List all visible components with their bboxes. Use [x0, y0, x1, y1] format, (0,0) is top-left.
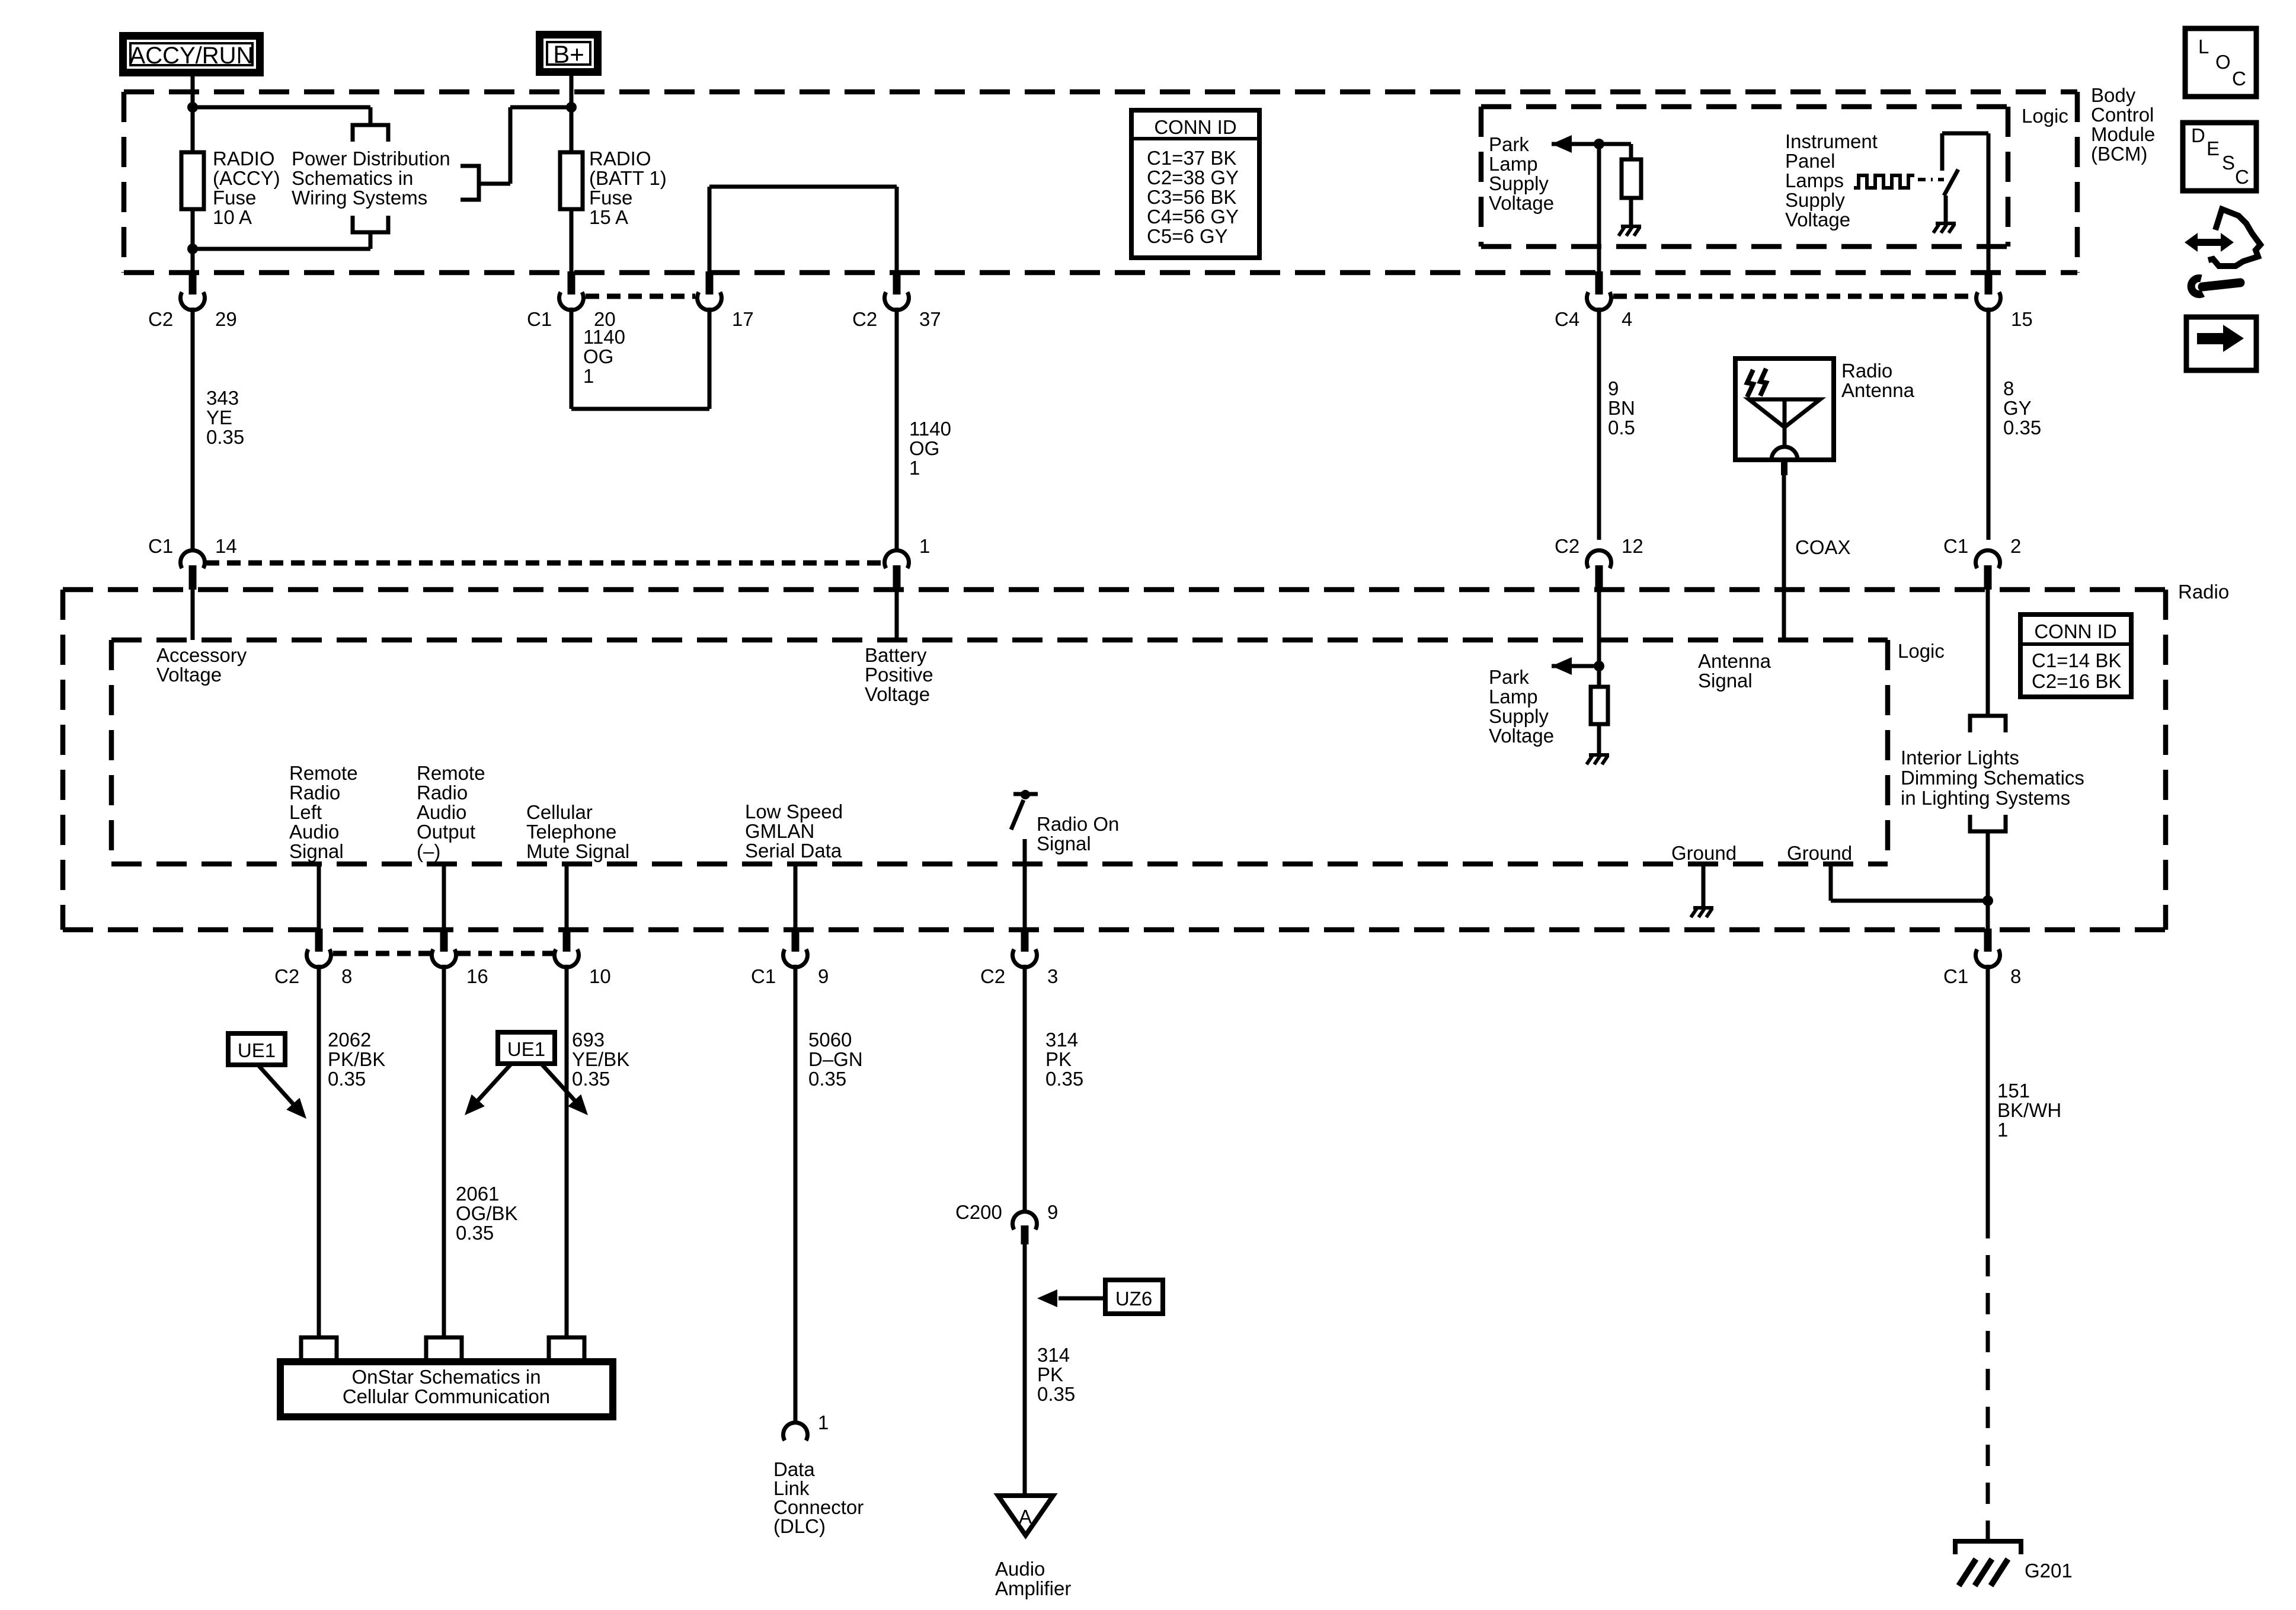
- svg-text:PK: PK: [1045, 1048, 1072, 1070]
- svg-text:C4=56 GY: C4=56 GY: [1147, 206, 1239, 228]
- wire 2061 OG/BK 0.35: [442, 965, 446, 1337]
- icon two-way arrow: [2185, 233, 2234, 252]
- dash-dot link to dimmer switch: [1918, 178, 1944, 181]
- radio CONN ID table: [2020, 614, 2131, 697]
- svg-text:Lamp: Lamp: [1489, 153, 1538, 175]
- wire 151 BK/WH dashed part: [1986, 1217, 1990, 1541]
- svg-text:Low Speed: Low Speed: [745, 801, 843, 822]
- antenna mast: [1783, 399, 1787, 447]
- svg-text:C3=56 BK: C3=56 BK: [1147, 186, 1236, 208]
- svg-text:Signal: Signal: [289, 840, 344, 862]
- svg-text:17: 17: [732, 308, 754, 330]
- wire 314 PK 0.35 upper: [1023, 965, 1027, 1212]
- svg-text:Voltage: Voltage: [1489, 192, 1554, 214]
- pin 8 connector arc: [307, 949, 331, 967]
- radio on switch blade: [1011, 800, 1024, 830]
- pin 10 connector arc: [555, 949, 579, 967]
- pin 3 stub: [1021, 929, 1029, 952]
- off-page bracket right (Power Distribution): [461, 166, 479, 200]
- svg-text:14: 14: [215, 535, 237, 557]
- svg-text:Fuse: Fuse: [589, 187, 632, 209]
- svg-text:0.35: 0.35: [1045, 1068, 1083, 1090]
- svg-text:C4: C4: [1555, 308, 1579, 330]
- wire pin 10 inside radio: [565, 864, 569, 930]
- svg-text:Voltage: Voltage: [1785, 209, 1850, 231]
- pin 12 stub: [1595, 565, 1603, 590]
- svg-text:C2: C2: [980, 965, 1005, 987]
- svg-text:Battery: Battery: [865, 644, 927, 666]
- svg-text:1: 1: [818, 1411, 829, 1433]
- svg-text:Signal: Signal: [1698, 670, 1753, 692]
- svg-text:693: 693: [572, 1029, 605, 1051]
- dotted connector line C2 pins 16-10: [457, 951, 554, 956]
- ground chassis dimmer switch: [1936, 222, 1956, 225]
- fuse RADIO (BATT 1) 15 A: [560, 152, 583, 209]
- svg-text:10 A: 10 A: [213, 206, 252, 228]
- svg-text:C1: C1: [148, 535, 173, 557]
- resistor park lamp BCM: [1622, 159, 1641, 198]
- wire 2062 PK/BK 0.35: [317, 965, 321, 1337]
- svg-text:C: C: [2235, 166, 2249, 188]
- svg-text:Mute Signal: Mute Signal: [526, 840, 629, 862]
- svg-text:OG: OG: [583, 345, 613, 367]
- svg-text:Instrument: Instrument: [1785, 130, 1878, 152]
- svg-text:9: 9: [1608, 377, 1619, 399]
- pin 14 connector arc: [181, 550, 205, 568]
- svg-text:RADIO: RADIO: [589, 148, 651, 169]
- pin 15 connector arc: [1977, 292, 2001, 310]
- wire pin C1-9 inside radio: [794, 864, 798, 930]
- svg-text:Accessory: Accessory: [156, 644, 247, 666]
- power feed tag B+: [540, 35, 598, 72]
- svg-text:CONN ID: CONN ID: [1154, 116, 1236, 138]
- svg-text:Logic: Logic: [1898, 640, 1945, 662]
- svg-text:D: D: [2191, 124, 2205, 146]
- svg-text:1140: 1140: [583, 326, 625, 348]
- antenna wave bolt 1: [1747, 370, 1753, 397]
- Body Control Module (BCM) dashed box: [124, 89, 2077, 95]
- svg-text:15 A: 15 A: [589, 206, 628, 228]
- BCM CONN ID table: [1131, 110, 1259, 258]
- svg-text:GY: GY: [2003, 397, 2032, 419]
- icon DESC box: [2183, 123, 2256, 191]
- dimmer switch lower contact wire: [1944, 196, 1948, 222]
- svg-text:Telephone: Telephone: [526, 821, 616, 843]
- resistor park lamp radio: [1591, 687, 1608, 724]
- svg-text:8: 8: [2010, 965, 2021, 987]
- svg-text:Antenna: Antenna: [1698, 650, 1771, 672]
- pin 20 connector arc: [559, 292, 584, 310]
- svg-text:Lamp: Lamp: [1489, 686, 1538, 708]
- svg-text:Dimming Schematics: Dimming Schematics: [1901, 767, 2084, 789]
- svg-text:151: 151: [1997, 1080, 2030, 1102]
- junction dot park lamp radio: [1594, 661, 1604, 671]
- svg-text:E: E: [2207, 137, 2220, 159]
- ground stub left: [1702, 864, 1706, 908]
- wire pin 16 inside radio: [442, 864, 446, 930]
- svg-text:RADIO: RADIO: [213, 148, 275, 169]
- junction dot B+: [566, 102, 577, 113]
- svg-text:0.35: 0.35: [456, 1222, 494, 1244]
- svg-text:37: 37: [919, 308, 941, 330]
- UE1 left arrow: [259, 1066, 296, 1108]
- svg-text:C1: C1: [527, 308, 552, 330]
- svg-text:UZ6: UZ6: [1115, 1288, 1152, 1310]
- wire radio on signal to pin C2-3: [1023, 839, 1027, 930]
- svg-text:0.35: 0.35: [328, 1068, 366, 1090]
- pin 20 stub: [568, 271, 575, 295]
- pin 10 stub: [563, 929, 571, 952]
- OnStar box: [280, 1362, 613, 1417]
- svg-text:C2: C2: [274, 965, 299, 987]
- wire 1140 OG 1 loop from pin 20: [570, 308, 574, 409]
- svg-text:CONN ID: CONN ID: [2034, 620, 2116, 642]
- icon bent arrow outline: [2208, 209, 2260, 266]
- off-page bracket bottom (Power Distribution): [353, 216, 388, 232]
- svg-text:2: 2: [2010, 535, 2021, 557]
- svg-text:S: S: [2222, 152, 2235, 174]
- pin 9 connector arc: [784, 949, 808, 967]
- dotted connector line C4 pins 4-15: [1613, 294, 1974, 299]
- svg-text:Schematics in: Schematics in: [292, 167, 413, 189]
- wire pin C1-14 to Accessory Voltage: [191, 590, 195, 640]
- svg-text:1: 1: [583, 365, 594, 387]
- svg-text:Ground: Ground: [1787, 842, 1852, 864]
- svg-text:Radio: Radio: [417, 782, 468, 804]
- svg-text:C2: C2: [852, 308, 877, 330]
- pin 2 connector arc: [1975, 550, 2000, 568]
- ground chassis radio park lamp: [1589, 753, 1609, 757]
- dimmer switch fixed contact: [1940, 133, 1945, 171]
- radio on switch contact bar: [1013, 792, 1038, 796]
- connector C200 stub: [1021, 1225, 1029, 1244]
- svg-text:343: 343: [206, 387, 239, 409]
- svg-text:OnStar Schematics in: OnStar Schematics in: [351, 1366, 541, 1388]
- svg-text:G201: G201: [2025, 1560, 2073, 1582]
- svg-text:Serial Data: Serial Data: [745, 840, 842, 862]
- svg-text:0.35: 0.35: [1037, 1383, 1075, 1405]
- pin 1 connector arc: [885, 550, 909, 568]
- audio amplifier triangle A: [998, 1496, 1053, 1535]
- svg-text:C1=14 BK: C1=14 BK: [2032, 649, 2121, 671]
- PWM square wave symbol: [1854, 175, 1914, 188]
- svg-text:Supply: Supply: [1489, 172, 1549, 194]
- UZ6 arrow to wire: [1059, 1297, 1105, 1301]
- off-page bracket top (Power Distribution): [353, 125, 388, 142]
- antenna triangle: [1749, 399, 1820, 427]
- svg-text:Radio On: Radio On: [1037, 813, 1119, 835]
- svg-text:C2: C2: [1555, 535, 1579, 557]
- svg-text:5060: 5060: [808, 1029, 852, 1051]
- svg-text:10: 10: [589, 965, 611, 987]
- Radio inner logic dashed box: [111, 638, 1888, 643]
- svg-text:Remote: Remote: [417, 762, 485, 784]
- svg-text:C1: C1: [1943, 965, 1968, 987]
- terminal bracket pin8 wire: [301, 1337, 337, 1358]
- svg-text:Ground: Ground: [1671, 842, 1737, 864]
- pin 14 stub: [189, 565, 197, 590]
- svg-text:Audio: Audio: [995, 1558, 1045, 1580]
- svg-text:Left: Left: [289, 801, 322, 823]
- wire fuse to pin C2-29: [191, 209, 195, 271]
- svg-text:C1: C1: [1943, 535, 1968, 557]
- svg-text:C2=38 GY: C2=38 GY: [1147, 167, 1239, 188]
- pin 37 stub: [893, 271, 901, 295]
- option tag UZ6: [1105, 1280, 1163, 1314]
- svg-text:Fuse: Fuse: [213, 187, 256, 209]
- svg-text:0.35: 0.35: [2003, 417, 2041, 438]
- svg-text:C2=16 BK: C2=16 BK: [2032, 670, 2121, 692]
- pin 16 stub: [440, 929, 448, 952]
- wire pin C2-8 inside radio: [317, 864, 321, 930]
- DLC pin 1 arc: [784, 1423, 808, 1441]
- svg-text:C: C: [2232, 68, 2246, 89]
- svg-text:C200: C200: [955, 1201, 1002, 1223]
- wire ACCY/RUN feed down into BCM: [191, 76, 195, 152]
- svg-text:0.35: 0.35: [572, 1068, 610, 1090]
- connector C200 pin 9 arc: [1013, 1212, 1037, 1230]
- svg-text:Supply: Supply: [1489, 705, 1549, 727]
- svg-text:C1=37 BK: C1=37 BK: [1147, 147, 1236, 169]
- pin 8 stub: [315, 929, 323, 952]
- svg-text:Radio: Radio: [1841, 360, 1892, 382]
- fuse RADIO (ACCY) 10 A: [181, 152, 204, 209]
- ground wire to pin C1-8: [1829, 864, 1833, 901]
- svg-text:A: A: [1019, 1506, 1032, 1528]
- ground chassis radio left: [1693, 906, 1713, 910]
- svg-text:Interior Lights: Interior Lights: [1901, 747, 2019, 769]
- pin 4 connector arc: [1587, 292, 1611, 310]
- svg-text:0.5: 0.5: [1608, 417, 1635, 438]
- svg-text:314: 314: [1037, 1344, 1070, 1366]
- pin 17 connector arc: [698, 292, 722, 310]
- park lamp arrow (radio): [1552, 657, 1572, 675]
- pin 29 connector arc: [181, 292, 205, 310]
- terminal bracket pin16 wire: [426, 1337, 462, 1358]
- wire fuse to pin C1-20: [570, 209, 574, 271]
- pin 1 stub: [893, 565, 901, 590]
- svg-text:Control: Control: [2091, 104, 2154, 126]
- wire pin C2-12 to park lamp resistor (radio): [1597, 590, 1601, 687]
- svg-text:(BCM): (BCM): [2091, 143, 2147, 165]
- svg-text:Power Distribution: Power Distribution: [292, 148, 450, 169]
- svg-text:12: 12: [1622, 535, 1643, 557]
- pin 9 stub: [792, 929, 800, 952]
- svg-text:COAX: COAX: [1795, 536, 1851, 558]
- pin 4 stub: [1595, 271, 1603, 295]
- svg-text:UE1: UE1: [238, 1039, 276, 1061]
- wire 343 YE 0.35: [191, 308, 195, 550]
- wire 8 GY 0.35: [1987, 308, 1991, 540]
- wire 151 BK/WH 1 solid part: [1986, 965, 1990, 1217]
- svg-text:L: L: [2198, 36, 2209, 57]
- ground G201 symbol: [1955, 1541, 2021, 1554]
- wire 314 PK 0.35 lower: [1023, 1244, 1027, 1496]
- wire dimmer to pin 15: [1987, 133, 1991, 271]
- option tag UE1 right: [498, 1032, 555, 1064]
- wire 1140 OG 1 from pin 37 to radio pin 1: [895, 308, 899, 550]
- svg-text:Radio: Radio: [2178, 581, 2229, 603]
- pin 16 connector arc: [432, 949, 456, 967]
- svg-text:Supply: Supply: [1785, 189, 1845, 211]
- pin 8 stub: [1984, 929, 1992, 952]
- svg-text:(DLC): (DLC): [773, 1515, 826, 1537]
- junction dot ACCY top: [187, 102, 198, 113]
- wire 5060 D-GN 0.35: [794, 965, 798, 1423]
- svg-text:Lamps: Lamps: [1785, 169, 1844, 191]
- svg-text:9: 9: [818, 965, 829, 987]
- svg-text:2061: 2061: [456, 1183, 499, 1205]
- pin 3 connector arc: [1013, 949, 1037, 967]
- icon wrench: [2191, 279, 2240, 295]
- antenna wave bolt 2: [1760, 369, 1766, 396]
- svg-text:Cellular Communication: Cellular Communication: [343, 1385, 550, 1407]
- icon arrow box: [2186, 317, 2256, 370]
- wire to Power Distribution right bracket: [510, 105, 571, 110]
- antenna coax stub: [1781, 460, 1787, 475]
- wire resistor to ground radio: [1597, 724, 1601, 755]
- pin 17 stub: [706, 271, 714, 295]
- wire 9 BN 0.5 park lamp: [1597, 308, 1601, 540]
- wire resistor to ground BCM: [1629, 198, 1633, 226]
- Radio dashed box: [63, 587, 2166, 593]
- power feed tag ACCY/RUN: [123, 36, 260, 73]
- off-page bracket top (Interior Lights): [1970, 716, 2006, 732]
- svg-text:Park: Park: [1489, 666, 1529, 688]
- pin 29 stub: [189, 271, 197, 295]
- svg-text:YE/BK: YE/BK: [572, 1048, 629, 1070]
- terminal bracket pin10 wire: [549, 1337, 584, 1358]
- svg-text:C1: C1: [751, 965, 776, 987]
- svg-text:29: 29: [215, 308, 237, 330]
- radio on switch dot: [1021, 790, 1030, 799]
- svg-text:Park: Park: [1489, 133, 1529, 155]
- pin 15 stub: [1985, 271, 1993, 295]
- svg-text:Cellular: Cellular: [526, 801, 593, 823]
- svg-text:Voltage: Voltage: [865, 683, 930, 705]
- wire 693 YE/BK 0.35: [565, 965, 569, 1337]
- svg-text:(BATT 1): (BATT 1): [589, 167, 667, 189]
- junction dot park lamp BCM: [1594, 139, 1604, 149]
- svg-text:OG/BK: OG/BK: [456, 1202, 518, 1224]
- COAX wire: [1782, 475, 1786, 640]
- svg-text:314: 314: [1045, 1029, 1078, 1051]
- svg-text:15: 15: [2011, 308, 2033, 330]
- wire pin C1-2 to interior lights bracket: [1986, 590, 1990, 716]
- svg-text:D–GN: D–GN: [808, 1048, 863, 1070]
- svg-text:C5=6 GY: C5=6 GY: [1147, 225, 1228, 247]
- svg-text:Antenna: Antenna: [1841, 379, 1915, 401]
- wire pin 1 to Battery Positive Voltage: [895, 590, 899, 640]
- svg-text:Voltage: Voltage: [1489, 725, 1554, 747]
- svg-text:C2: C2: [148, 308, 173, 330]
- svg-text:Amplifier: Amplifier: [995, 1577, 1071, 1599]
- UE1 right arrow to pin10 wire: [542, 1064, 578, 1105]
- svg-text:Audio: Audio: [289, 821, 339, 843]
- svg-text:OG: OG: [909, 437, 939, 459]
- dotted connector line C1 pins 14-1: [206, 561, 884, 566]
- ground chassis BCM park lamp: [1621, 225, 1641, 228]
- wire B+ feed down into BCM: [570, 76, 574, 152]
- svg-text:UE1: UE1: [507, 1038, 545, 1060]
- antenna base dome: [1771, 447, 1798, 460]
- svg-text:0.35: 0.35: [808, 1068, 846, 1090]
- junction dot ground wire: [1982, 895, 1993, 906]
- pin 8 connector arc: [1975, 949, 2000, 967]
- svg-text:Radio: Radio: [289, 782, 340, 804]
- svg-text:Output: Output: [417, 821, 475, 843]
- svg-text:8: 8: [341, 965, 352, 987]
- svg-text:8: 8: [2003, 377, 2014, 399]
- svg-text:1: 1: [909, 457, 920, 479]
- BCM park lamp output arrow: [1552, 135, 1572, 153]
- svg-text:O: O: [2215, 51, 2231, 73]
- dotted connector line C2 pins 8-16: [333, 951, 431, 956]
- svg-text:Voltage: Voltage: [156, 664, 222, 686]
- pin 2 stub: [1984, 565, 1992, 590]
- junction dot ACCY bottom: [187, 244, 198, 254]
- wire to Power Distribution bracket (top): [193, 105, 370, 110]
- svg-text:Module: Module: [2091, 123, 2155, 145]
- radio antenna box: [1735, 359, 1834, 460]
- off-page bracket bottom (Interior Lights): [1970, 815, 2006, 831]
- svg-text:(ACCY): (ACCY): [213, 167, 280, 189]
- svg-text:Audio: Audio: [417, 801, 466, 823]
- dimmer switch blade: [1944, 169, 1958, 196]
- svg-text:16: 16: [466, 965, 488, 987]
- svg-text:Signal: Signal: [1037, 833, 1091, 854]
- svg-text:in Lighting Systems: in Lighting Systems: [1901, 787, 2070, 809]
- svg-text:2062: 2062: [328, 1029, 371, 1051]
- svg-text:BN: BN: [1608, 397, 1635, 419]
- dotted connector line C1 pins 20-17: [586, 294, 695, 299]
- svg-text:PK: PK: [1037, 1363, 1063, 1385]
- svg-text:3: 3: [1047, 965, 1058, 987]
- svg-text:Positive: Positive: [865, 664, 933, 686]
- svg-text:4: 4: [1622, 308, 1632, 330]
- svg-text:0.35: 0.35: [206, 426, 244, 448]
- svg-text:(–): (–): [417, 840, 440, 862]
- svg-text:B+: B+: [553, 40, 584, 68]
- UE1 right arrow to pin16 wire: [474, 1064, 511, 1105]
- svg-text:Logic: Logic: [2022, 105, 2068, 127]
- svg-text:GMLAN: GMLAN: [745, 820, 814, 842]
- svg-text:1140: 1140: [909, 418, 951, 440]
- option tag UE1 left: [228, 1033, 285, 1065]
- svg-text:PK/BK: PK/BK: [328, 1048, 385, 1070]
- BCM internal link pin17 to pin37: [708, 187, 712, 271]
- svg-text:9: 9: [1047, 1201, 1058, 1223]
- icon LOC box: [2185, 28, 2256, 97]
- wire to park lamp resistor BCM: [1629, 144, 1633, 159]
- svg-text:1: 1: [919, 535, 930, 557]
- svg-text:Remote: Remote: [289, 762, 358, 784]
- svg-text:Body: Body: [2091, 84, 2136, 106]
- svg-text:Panel: Panel: [1785, 150, 1835, 172]
- pin 12 connector arc: [1587, 550, 1611, 568]
- svg-text:BK/WH: BK/WH: [1997, 1099, 2061, 1121]
- wire bracket bottom to ACCY wire: [369, 232, 373, 249]
- wire interior lights bracket to ground junction: [1986, 831, 1990, 930]
- svg-text:Wiring Systems: Wiring Systems: [292, 187, 427, 209]
- wire park lamp to pin C4-4: [1597, 144, 1601, 271]
- BCM inner logic dashed box: [1481, 104, 2008, 110]
- svg-text:ACCY/RUN: ACCY/RUN: [130, 43, 254, 69]
- svg-text:YE: YE: [206, 406, 232, 428]
- pin 37 connector arc: [885, 292, 909, 310]
- svg-text:1: 1: [1997, 1119, 2008, 1141]
